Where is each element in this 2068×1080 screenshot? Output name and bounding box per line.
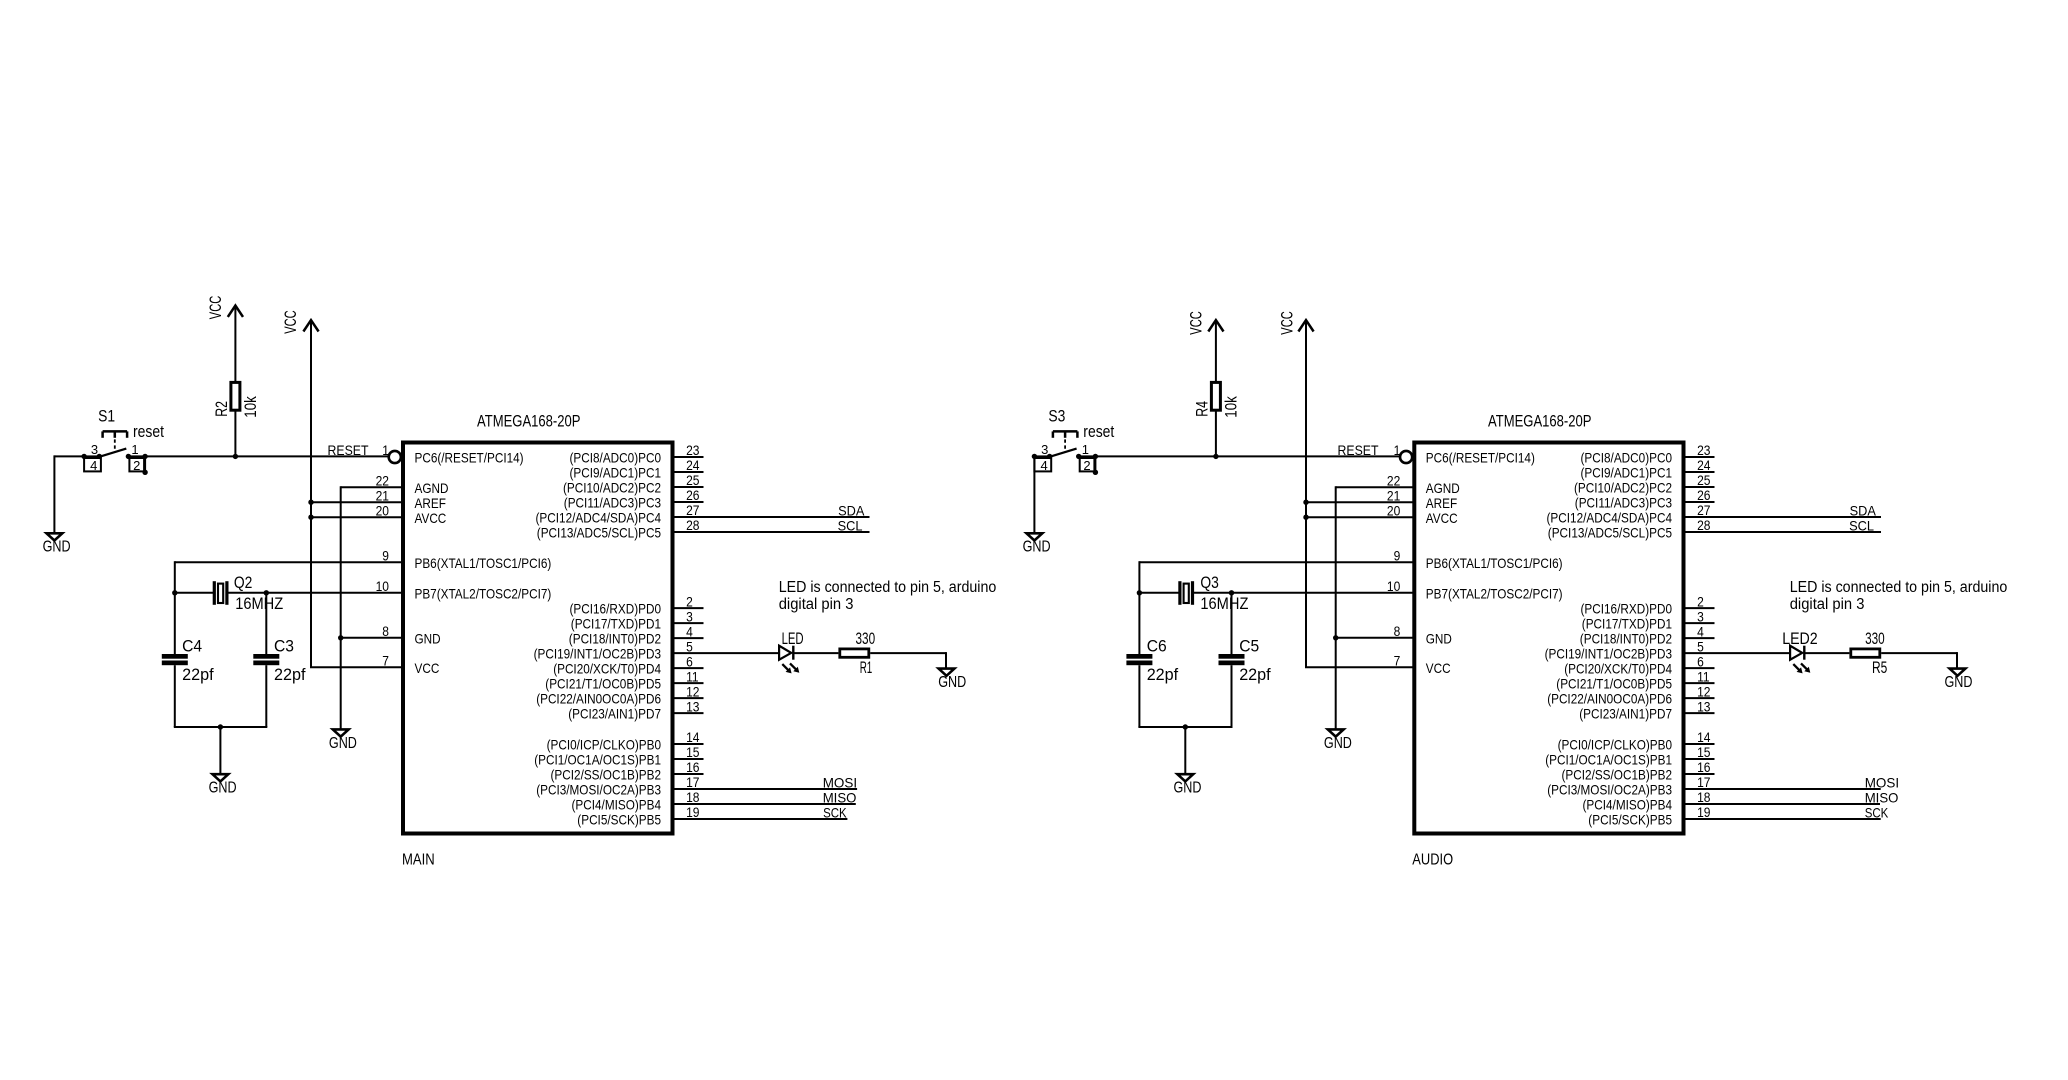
svg-text:20: 20 bbox=[376, 502, 390, 518]
U1 pin 10 name PB7(XTAL2/TOSC2/PCI7) bbox=[415, 585, 552, 601]
svg-text:GND: GND bbox=[938, 674, 966, 691]
wire switch S3 pin1-pin2 link bbox=[1094, 456, 1096, 472]
svg-text:9: 9 bbox=[382, 547, 389, 563]
microcontroller U1 ATMEGA168-20P body bbox=[403, 443, 673, 834]
U1 pin 21 name AREF bbox=[415, 495, 446, 511]
svg-text:22pf: 22pf bbox=[274, 666, 306, 684]
resistor R1 name label bbox=[860, 659, 873, 677]
svg-text:5: 5 bbox=[1697, 638, 1704, 654]
U1 pin 18 number bbox=[686, 789, 700, 805]
svg-text:AUDIO: AUDIO bbox=[1412, 852, 1453, 869]
svg-text:19: 19 bbox=[1697, 804, 1711, 820]
svg-text:SCK: SCK bbox=[823, 804, 847, 820]
svg-text:7: 7 bbox=[382, 652, 389, 668]
switch S1 lever bbox=[99, 449, 126, 457]
U1 pin 3 number bbox=[686, 608, 693, 624]
U2 pin 8 number bbox=[1394, 623, 1401, 639]
U2 pin 4 number bbox=[1697, 623, 1704, 639]
svg-text:(PCI4/MISO)PB4: (PCI4/MISO)PB4 bbox=[1583, 797, 1673, 813]
switch S3 pin number 4 bbox=[1040, 458, 1047, 473]
crystal Q2 value label 16MHZ bbox=[235, 595, 283, 613]
svg-text:(PCI20/XCK/T0)PD4: (PCI20/XCK/T0)PD4 bbox=[553, 661, 661, 677]
U2 pin 5 number bbox=[1697, 638, 1704, 654]
U2 pin 5 stub bbox=[1684, 652, 1715, 654]
ground symbol GND below capacitors bbox=[213, 774, 229, 781]
switch S1 pin number 1 bbox=[131, 442, 138, 457]
svg-text:LED is connected to pin 5, ard: LED is connected to pin 5, arduino bbox=[1790, 579, 2008, 596]
wire switch S1 pin 1 stub bbox=[128, 455, 145, 457]
U1 pin 25 number bbox=[686, 472, 700, 488]
U2 pin 20 name AVCC bbox=[1426, 510, 1458, 526]
U2 pin 15 name (PCI1/OC1A/OC1S)PB1 bbox=[1545, 752, 1672, 768]
wire U1 pin 9 XTAL1 to C4 bbox=[175, 561, 403, 593]
svg-text:17: 17 bbox=[686, 774, 700, 790]
U2 pin 15 stub bbox=[1684, 758, 1715, 760]
wire capacitor ground join bbox=[174, 726, 267, 728]
svg-text:LED is connected to pin 5, ard: LED is connected to pin 5, arduino bbox=[779, 579, 997, 596]
svg-text:(PCI16/RXD)PD0: (PCI16/RXD)PD0 bbox=[570, 601, 662, 617]
svg-text:8: 8 bbox=[1394, 623, 1401, 639]
svg-text:6: 6 bbox=[686, 653, 693, 669]
U2 pin 11 name (PCI21/T1/OC0B)PD5 bbox=[1556, 676, 1672, 692]
svg-text:C5: C5 bbox=[1239, 637, 1259, 655]
wire U2 pin 9 XTAL1 to C6 bbox=[1139, 561, 1414, 593]
junction capacitor ground join bbox=[218, 724, 223, 729]
svg-text:SCL: SCL bbox=[1849, 517, 1874, 533]
U1 pin 21 number bbox=[376, 487, 390, 503]
U2 pin 23 number bbox=[1697, 442, 1711, 458]
U1 pin 19 number bbox=[686, 804, 700, 820]
svg-text:21: 21 bbox=[1387, 487, 1401, 503]
svg-text:(PCI19/INT1/OC2B)PD3: (PCI19/INT1/OC2B)PD3 bbox=[1545, 646, 1673, 662]
svg-text:(PCI21/T1/OC0B)PD5: (PCI21/T1/OC0B)PD5 bbox=[1556, 676, 1672, 692]
svg-text:Q2: Q2 bbox=[234, 574, 253, 592]
svg-text:S3: S3 bbox=[1048, 407, 1065, 425]
svg-text:(PCI17/TXD)PD1: (PCI17/TXD)PD1 bbox=[571, 616, 661, 632]
svg-text:4: 4 bbox=[90, 458, 97, 473]
U1 pin 11 stub bbox=[673, 682, 704, 684]
U1 pin 26 name (PCI11/ADC3)PC3 bbox=[564, 495, 661, 511]
svg-text:(PCI22/AIN0OC0A)PD6: (PCI22/AIN0OC0A)PD6 bbox=[1547, 691, 1672, 707]
U2 pin 23 stub bbox=[1684, 456, 1715, 458]
U2 pin 10 name PB7(XTAL2/TOSC2/PCI7) bbox=[1426, 585, 1563, 601]
U2 pin 12 name (PCI22/AIN0OC0A)PD6 bbox=[1547, 691, 1672, 707]
capacitor C4 name label bbox=[182, 637, 202, 655]
junction switch S1 pin1 bbox=[142, 454, 147, 459]
LED LED2 symbol bbox=[1790, 646, 1804, 660]
junction C6 / XTAL1 bbox=[1137, 590, 1142, 595]
U2 pin 2 number bbox=[1697, 593, 1704, 609]
svg-text:AREF: AREF bbox=[1426, 495, 1457, 511]
U2 pin 3 stub bbox=[1684, 622, 1715, 624]
LED LED2 light emission arrows bbox=[1793, 663, 1810, 673]
U1 pin 16 name (PCI2/SS/OC1B)PB2 bbox=[551, 767, 662, 783]
wire VCC bus to U2 pin 7 VCC bbox=[1305, 666, 1414, 668]
U2 pin 14 stub bbox=[1684, 743, 1715, 745]
LED LED2 name label bbox=[1782, 630, 1818, 648]
U1 pin 11 name (PCI21/T1/OC0B)PD5 bbox=[545, 676, 661, 692]
U1 pin 4 stub bbox=[673, 637, 704, 639]
switch S3 pin number 3 bbox=[1041, 442, 1048, 457]
U1 value label ATMEGA168-20P bbox=[477, 412, 581, 431]
U2 value label ATMEGA168-20P bbox=[1488, 412, 1592, 431]
U1 pin 9 name PB6(XTAL1/TOSC1/PCI6) bbox=[415, 555, 552, 571]
U1 pin 18 name (PCI4/MISO)PB4 bbox=[572, 797, 662, 813]
svg-text:ATMEGA168-20P: ATMEGA168-20P bbox=[1488, 412, 1592, 431]
junction AVCC / VCC bus bbox=[308, 515, 313, 520]
svg-text:25: 25 bbox=[686, 472, 700, 488]
net label SCK bbox=[1865, 804, 1889, 820]
U2 pin 10 number bbox=[1387, 578, 1401, 594]
svg-text:GND: GND bbox=[1945, 674, 1973, 691]
svg-text:AREF: AREF bbox=[415, 495, 446, 511]
switch S3 actuator dashed shaft bbox=[1064, 439, 1066, 452]
wire crystal row: C4 to U1 pin 10 XTAL2 bbox=[175, 592, 403, 594]
capacitor C6 name label bbox=[1147, 637, 1167, 655]
resistor R4 name label bbox=[1193, 401, 1211, 417]
svg-text:22pf: 22pf bbox=[1239, 666, 1271, 684]
svg-text:10k: 10k bbox=[1222, 395, 1240, 417]
U2 pin 8 name GND bbox=[1426, 630, 1452, 646]
svg-text:RESET: RESET bbox=[328, 442, 369, 458]
U2 pin 16 number bbox=[1697, 759, 1711, 775]
svg-text:(PCI21/T1/OC0B)PD5: (PCI21/T1/OC0B)PD5 bbox=[545, 676, 661, 692]
ground symbol GND at LED branch bbox=[939, 669, 955, 676]
U2 pin 16 name (PCI2/SS/OC1B)PB2 bbox=[1562, 767, 1673, 783]
U1 pin 23 name (PCI8/ADC0)PC0 bbox=[570, 450, 662, 466]
svg-text:(PCI1/OC1A/OC1S)PB1: (PCI1/OC1A/OC1S)PB1 bbox=[534, 752, 661, 768]
svg-text:330: 330 bbox=[1865, 630, 1885, 648]
crystal Q3 16MHZ bbox=[1180, 581, 1193, 605]
wire resistor R2 to RESET net bbox=[234, 411, 236, 456]
svg-text:20: 20 bbox=[1387, 502, 1401, 518]
U1 pin 19 name (PCI5/SCK)PB5 bbox=[577, 812, 661, 828]
svg-text:330: 330 bbox=[856, 630, 876, 648]
junction pin8 GND / ground line bbox=[338, 635, 343, 640]
capacitor C6 value label 22pf bbox=[1147, 666, 1179, 684]
svg-text:10: 10 bbox=[376, 578, 390, 594]
wire switch S3 pin 3 stub bbox=[1034, 455, 1049, 457]
U2 pin 4 stub bbox=[1684, 637, 1715, 639]
svg-text:(PCI18/INT0)PD2: (PCI18/INT0)PD2 bbox=[1580, 631, 1672, 647]
svg-text:16MHZ: 16MHZ bbox=[1200, 595, 1248, 613]
U1 pin 13 name (PCI23/AIN1)PD7 bbox=[568, 706, 661, 722]
svg-text:PB6(XTAL1/TOSC1/PCI6): PB6(XTAL1/TOSC1/PCI6) bbox=[1426, 555, 1563, 571]
svg-text:16MHZ: 16MHZ bbox=[235, 595, 283, 613]
U2 pin 24 stub bbox=[1684, 471, 1715, 473]
svg-text:7: 7 bbox=[1394, 652, 1401, 668]
svg-text:VCC: VCC bbox=[1278, 311, 1296, 335]
net label RESET bbox=[328, 442, 369, 458]
vcc symbol VCC bus arrow bbox=[1278, 311, 1313, 335]
switch S1 contact pin 1/2 box bbox=[129, 458, 144, 471]
U1 pin 27 name (PCI12/ADC4/SDA)PC4 bbox=[536, 510, 662, 526]
svg-text:reset: reset bbox=[133, 423, 164, 441]
U1 pin 16 number bbox=[686, 759, 700, 775]
net label SCK bbox=[823, 804, 847, 820]
svg-text:(PCI11/ADC3)PC3: (PCI11/ADC3)PC3 bbox=[564, 495, 661, 511]
wire MISO net from U1 bbox=[704, 803, 856, 805]
capacitor C3 22pf plates bbox=[253, 654, 279, 665]
svg-text:VCC: VCC bbox=[1188, 311, 1206, 335]
U2 pin 27 stub bbox=[1684, 516, 1715, 518]
U1 pin 4 number bbox=[686, 623, 693, 639]
U2 pin 18 stub bbox=[1684, 803, 1715, 805]
U2 pin 14 name (PCI0/ICP/CLKO)PB0 bbox=[1558, 737, 1673, 753]
U1 pin 9 number bbox=[382, 547, 389, 563]
crystal Q3 value label 16MHZ bbox=[1200, 595, 1248, 613]
svg-text:GND: GND bbox=[329, 735, 357, 752]
svg-text:8: 8 bbox=[382, 623, 389, 639]
svg-text:R2: R2 bbox=[213, 401, 231, 417]
capacitor C4 value label 22pf bbox=[182, 666, 214, 684]
svg-text:(PCI11/ADC3)PC3: (PCI11/ADC3)PC3 bbox=[1575, 495, 1672, 511]
svg-text:(PCI20/XCK/T0)PD4: (PCI20/XCK/T0)PD4 bbox=[1564, 661, 1672, 677]
wire SCL net from U1 pin 28 bbox=[704, 531, 870, 533]
U2 pin 11 stub bbox=[1684, 682, 1715, 684]
switch S3 contact pin 1/2 box bbox=[1080, 458, 1095, 471]
resistor R5 name label bbox=[1872, 659, 1887, 677]
svg-text:2: 2 bbox=[1697, 593, 1704, 609]
U2 pin 18 name (PCI4/MISO)PB4 bbox=[1583, 797, 1673, 813]
wire VCC to resistor R2 bbox=[234, 306, 236, 382]
switch S1 pin number 2 bbox=[133, 458, 140, 473]
svg-text:(PCI22/AIN0OC0A)PD6: (PCI22/AIN0OC0A)PD6 bbox=[536, 691, 661, 707]
svg-text:AGND: AGND bbox=[415, 480, 449, 496]
U2 pin 23 name (PCI8/ADC0)PC0 bbox=[1581, 450, 1673, 466]
svg-text:19: 19 bbox=[686, 804, 700, 820]
svg-text:(PCI0/ICP/CLKO)PB0: (PCI0/ICP/CLKO)PB0 bbox=[1558, 737, 1673, 753]
svg-text:S1: S1 bbox=[98, 407, 115, 425]
junction switch S1 pin 1 entry bbox=[126, 454, 131, 459]
svg-text:MAIN: MAIN bbox=[402, 852, 435, 869]
wire crystal row: C6 to U2 pin 10 XTAL2 bbox=[1139, 592, 1414, 594]
annotation: LED note line 1 bbox=[1790, 579, 2008, 596]
LED LED light emission arrows bbox=[782, 663, 799, 673]
ground symbol GND below switch S1 bbox=[47, 533, 63, 540]
wire MOSI net from U1 bbox=[704, 788, 858, 790]
junction switch S3 pin2 bbox=[1093, 470, 1098, 475]
svg-text:GND: GND bbox=[209, 780, 237, 797]
wire U2 pin 22 AGND to ground line bbox=[1336, 486, 1415, 729]
resistor R2 10k body bbox=[231, 382, 240, 410]
svg-text:Q3: Q3 bbox=[1200, 574, 1219, 592]
U2 pin 13 number bbox=[1697, 698, 1711, 714]
U2 pin 26 number bbox=[1697, 487, 1711, 503]
junction switch S3 lever pivot bbox=[1047, 454, 1052, 459]
U1 pin 8 number bbox=[382, 623, 389, 639]
wire C6 bottom lead bbox=[1138, 665, 1140, 727]
svg-text:(PCI18/INT0)PD2: (PCI18/INT0)PD2 bbox=[569, 631, 661, 647]
U2 pin 5 name (PCI19/INT1/OC2B)PD3 bbox=[1545, 646, 1673, 662]
ground symbol GND below capacitors bbox=[1177, 774, 1193, 781]
sheet label AUDIO bbox=[1412, 852, 1453, 869]
U1 pin 27 number bbox=[686, 502, 700, 518]
svg-text:PC6(/RESET/PCI14): PC6(/RESET/PCI14) bbox=[415, 450, 524, 466]
wire SDA net from U1 pin 27 bbox=[704, 516, 870, 518]
U2 pin 12 stub bbox=[1684, 697, 1715, 699]
wire U1 pin 22 AGND to ground line bbox=[341, 486, 403, 729]
resistor R5 value label 330 bbox=[1865, 630, 1885, 648]
U1 pin 6 number bbox=[686, 653, 693, 669]
junction resistor R2 / RESET bbox=[233, 454, 238, 459]
svg-text:6: 6 bbox=[1697, 653, 1704, 669]
svg-text:14: 14 bbox=[686, 729, 700, 745]
U1 pin 28 name (PCI13/ADC5/SCL)PC5 bbox=[537, 525, 661, 541]
wire switch S1 pin 3 stub bbox=[84, 455, 99, 457]
U1 pin 17 number bbox=[686, 774, 700, 790]
U2 pin 2 stub bbox=[1684, 607, 1715, 609]
svg-text:(PCI9/ADC1)PC1: (PCI9/ADC1)PC1 bbox=[1581, 465, 1673, 481]
U1 pin 27 stub bbox=[673, 516, 704, 518]
U2 pin 19 number bbox=[1697, 804, 1711, 820]
wire C3 top lead bbox=[265, 593, 267, 654]
svg-text:(PCI2/SS/OC1B)PB2: (PCI2/SS/OC1B)PB2 bbox=[551, 767, 662, 783]
wire switch S1 pin3 to GND bbox=[54, 455, 84, 533]
wire SCK net from U1 bbox=[704, 818, 848, 820]
switch S1 pin number 4 bbox=[90, 458, 97, 473]
net label SDA bbox=[838, 502, 865, 518]
wire resistor R5 to GND bbox=[1881, 652, 1957, 669]
capacitor C3 value label 22pf bbox=[274, 666, 306, 684]
net label MISO bbox=[823, 789, 857, 805]
svg-text:digital pin 3: digital pin 3 bbox=[1790, 596, 1865, 613]
U2 pin 3 number bbox=[1697, 608, 1704, 624]
U2 pin 19 name (PCI5/SCK)PB5 bbox=[1588, 812, 1672, 828]
resistor R4 10k body bbox=[1211, 382, 1220, 410]
U1 pin 23 number bbox=[686, 442, 700, 458]
svg-text:2: 2 bbox=[1083, 458, 1090, 473]
svg-text:24: 24 bbox=[686, 457, 700, 473]
switch S1 actuator dashed shaft bbox=[114, 439, 116, 452]
vcc symbol VCC above resistor R2 bbox=[207, 295, 243, 319]
svg-text:VCC: VCC bbox=[207, 295, 225, 319]
U2 pin 14 number bbox=[1697, 729, 1711, 745]
U1 pin 15 number bbox=[686, 744, 700, 760]
sheet label MAIN bbox=[402, 852, 435, 869]
wire LED LED cathode to resistor R1 bbox=[793, 652, 838, 654]
U1 pin 12 name (PCI22/AIN0OC0A)PD6 bbox=[536, 691, 661, 707]
svg-text:(PCI5/SCK)PB5: (PCI5/SCK)PB5 bbox=[577, 812, 661, 828]
net label MISO bbox=[1865, 789, 1899, 805]
svg-text:VCC: VCC bbox=[1426, 660, 1451, 676]
ground symbol GND below U2 bbox=[1328, 729, 1344, 736]
U2 pin 6 name (PCI20/XCK/T0)PD4 bbox=[1564, 661, 1672, 677]
svg-text:(PCI0/ICP/CLKO)PB0: (PCI0/ICP/CLKO)PB0 bbox=[547, 737, 662, 753]
svg-text:26: 26 bbox=[1697, 487, 1711, 503]
switch S1 pin number 3 bbox=[91, 442, 98, 457]
svg-text:(PCI10/ADC2)PC2: (PCI10/ADC2)PC2 bbox=[563, 480, 661, 496]
svg-text:SDA: SDA bbox=[1850, 502, 1877, 518]
svg-text:PB7(XTAL2/TOSC2/PCI7): PB7(XTAL2/TOSC2/PCI7) bbox=[415, 585, 552, 601]
U1 pin 23 stub bbox=[673, 456, 704, 458]
wire U1 pin 5 to LED LED anode bbox=[704, 652, 780, 654]
wire switch S1 pin1-pin2 link bbox=[144, 456, 146, 472]
svg-text:11: 11 bbox=[686, 668, 699, 684]
wire switch S3 pin 1 stub bbox=[1079, 455, 1096, 457]
svg-text:GND: GND bbox=[415, 630, 441, 646]
vcc symbol VCC bus arrow bbox=[282, 310, 318, 334]
svg-text:VCC: VCC bbox=[415, 660, 440, 676]
LED LED name label bbox=[782, 630, 804, 648]
svg-text:23: 23 bbox=[686, 442, 700, 458]
svg-text:(PCI5/SCK)PB5: (PCI5/SCK)PB5 bbox=[1588, 812, 1672, 828]
resistor R1 value label 330 bbox=[856, 630, 876, 648]
svg-text:AGND: AGND bbox=[1426, 480, 1460, 496]
svg-text:PB7(XTAL2/TOSC2/PCI7): PB7(XTAL2/TOSC2/PCI7) bbox=[1426, 585, 1563, 601]
svg-text:3: 3 bbox=[1041, 442, 1048, 457]
U2 pin 12 number bbox=[1697, 683, 1711, 699]
U1 pin 1 inversion circle bbox=[389, 451, 401, 463]
U1 pin 17 name (PCI3/MOSI/OC2A)PB3 bbox=[536, 782, 661, 798]
U1 pin 11 number bbox=[686, 668, 699, 684]
svg-text:28: 28 bbox=[686, 517, 700, 533]
svg-text:14: 14 bbox=[1697, 729, 1711, 745]
U2 pin 6 number bbox=[1697, 653, 1704, 669]
svg-text:13: 13 bbox=[1697, 698, 1711, 714]
U2 pin 24 name (PCI9/ADC1)PC1 bbox=[1581, 465, 1673, 481]
svg-text:digital pin 3: digital pin 3 bbox=[779, 596, 854, 613]
U1 pin 4 name (PCI18/INT0)PD2 bbox=[569, 631, 661, 647]
junction AVCC / VCC bus bbox=[1303, 515, 1308, 520]
svg-text:22: 22 bbox=[376, 472, 390, 488]
svg-text:9: 9 bbox=[1394, 547, 1401, 563]
svg-text:27: 27 bbox=[686, 502, 700, 518]
svg-text:12: 12 bbox=[1697, 683, 1711, 699]
svg-text:R1: R1 bbox=[860, 659, 873, 677]
U2 pin 21 number bbox=[1387, 487, 1401, 503]
wire resistor R1 to GND bbox=[870, 652, 946, 669]
svg-text:10: 10 bbox=[1387, 578, 1401, 594]
U2 pin 13 stub bbox=[1684, 712, 1715, 714]
U1 pin 12 number bbox=[686, 683, 700, 699]
svg-text:GND: GND bbox=[1426, 630, 1452, 646]
wire VCC bus vertical bbox=[1305, 320, 1307, 667]
svg-text:MOSI: MOSI bbox=[1865, 774, 1899, 790]
LED LED symbol bbox=[779, 646, 793, 660]
svg-text:reset: reset bbox=[1083, 423, 1114, 441]
svg-text:(PCI17/TXD)PD1: (PCI17/TXD)PD1 bbox=[1582, 616, 1672, 632]
annotation: LED note line 1 bbox=[779, 579, 997, 596]
wire U2 pin 5 to LED LED2 anode bbox=[1715, 652, 1791, 654]
wire VCC to resistor R4 bbox=[1215, 320, 1217, 381]
U1 pin 25 stub bbox=[673, 486, 704, 488]
wire SCL net from U2 pin 28 bbox=[1715, 531, 1882, 533]
crystal Q2 16MHZ bbox=[214, 581, 227, 605]
junction switch S1 lever pivot bbox=[97, 454, 102, 459]
switch S3 pin number 1 bbox=[1082, 442, 1089, 457]
svg-text:17: 17 bbox=[1697, 774, 1711, 790]
wire RESET net: switch S3 pin1 to U2 pin 1 bbox=[1096, 455, 1400, 457]
svg-text:(PCI23/AIN1)PD7: (PCI23/AIN1)PD7 bbox=[568, 706, 661, 722]
svg-text:PC6(/RESET/PCI14): PC6(/RESET/PCI14) bbox=[1426, 450, 1535, 466]
svg-text:3: 3 bbox=[686, 608, 693, 624]
switch S3 lever bbox=[1050, 449, 1077, 457]
net label SCL bbox=[838, 517, 863, 533]
junction capacitor ground join bbox=[1183, 724, 1188, 729]
svg-text:(PCI8/ADC0)PC0: (PCI8/ADC0)PC0 bbox=[570, 450, 662, 466]
svg-text:26: 26 bbox=[686, 487, 700, 503]
wire U1 pin 20 AVCC to VCC bus bbox=[311, 516, 403, 518]
svg-text:21: 21 bbox=[376, 487, 390, 503]
svg-text:MISO: MISO bbox=[1865, 789, 1899, 805]
resistor R5 330 body bbox=[1851, 649, 1880, 657]
net label MOSI bbox=[1865, 774, 1899, 790]
U2 pin 9 number bbox=[1394, 547, 1401, 563]
junction resistor R4 / RESET bbox=[1213, 454, 1218, 459]
wire SCK net from U2 bbox=[1715, 818, 1881, 820]
svg-text:C4: C4 bbox=[182, 637, 202, 655]
